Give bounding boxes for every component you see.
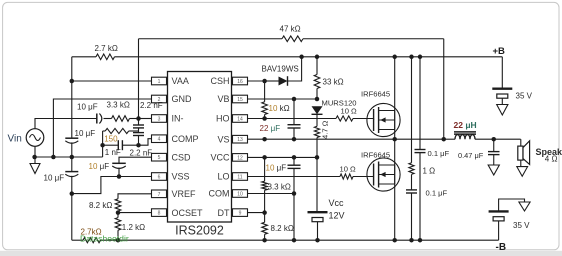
- node 33k +B junction: [315, 55, 320, 60]
- node branch1 +B junction: [409, 55, 414, 60]
- wire IN- node to pin 3: [139, 118, 152, 120]
- svg-text:3.3 kΩ: 3.3 kΩ: [268, 183, 291, 192]
- resistor 8.2 kΩ left: [115, 199, 121, 211]
- node Q1 drain +B junction: [392, 55, 397, 60]
- svg-text:9: 9: [239, 211, 242, 217]
- wire +B rail: [72, 56, 96, 58]
- wire decoupling branch 1: [411, 57, 413, 163]
- node branch1 rail junction: [409, 238, 414, 243]
- wire VAA to pin 1: [72, 80, 152, 82]
- wire feedback vertical right: [443, 39, 445, 139]
- svg-text:IRS2092: IRS2092: [175, 224, 224, 238]
- svg-text:VREF: VREF: [172, 189, 197, 199]
- node Vcc wire end junction: [315, 155, 320, 160]
- svg-text:2.2 nF: 2.2 nF: [140, 101, 163, 110]
- svg-text:DT: DT: [218, 208, 230, 218]
- svg-text:35 V: 35 V: [513, 221, 530, 230]
- node DT junction: [262, 210, 267, 215]
- svg-text:4: 4: [158, 137, 161, 143]
- pin 7 VREF box: [152, 190, 167, 198]
- svg-text:47 kΩ: 47 kΩ: [280, 25, 301, 34]
- svg-text:2.2 nF: 2.2 nF: [130, 148, 153, 157]
- wire HO pin 14: [248, 118, 265, 120]
- diode MURS120: [312, 106, 323, 114]
- resistor 10 kΩ CSH-HO: [264, 81, 266, 102]
- svg-text:8: 8: [158, 211, 161, 217]
- wire bottom rail: [72, 239, 83, 241]
- pin 11 LO box: [233, 173, 248, 181]
- capacitor 2.2 nF upper (IN- to mid node): [138, 119, 140, 126]
- svg-text:10 μF: 10 μF: [77, 103, 98, 112]
- wire 3.3k to IN- node: [130, 118, 139, 120]
- svg-text:VAA: VAA: [172, 76, 189, 86]
- svg-text:0.47 μF: 0.47 μF: [458, 151, 484, 160]
- resistor 47 kΩ: [282, 36, 303, 42]
- capacitor 10 uF CSD: [119, 157, 152, 163]
- wire cap to 3.3k: [104, 118, 112, 120]
- wire Vin to input cap: [35, 119, 97, 129]
- wire VCC pin 12: [248, 156, 318, 158]
- wire VSS pin 6: [72, 177, 152, 194]
- svg-text:LO: LO: [217, 172, 229, 182]
- ground +B battery: [501, 98, 503, 104]
- capacitor 2.2 nF lower (mid node to COMP): [133, 132, 144, 134]
- pin 3 IN- box: [152, 115, 167, 123]
- svg-text:150: 150: [104, 135, 118, 144]
- node CSH junction: [262, 79, 267, 84]
- svg-text:Vcc: Vcc: [329, 198, 345, 208]
- wire CSH pin 16: [248, 80, 265, 82]
- node Vcc battery rail junction: [315, 238, 320, 243]
- wire Q1 drain to +B: [394, 57, 396, 111]
- node diode +B junction: [299, 55, 304, 60]
- wire VAA drop from +B rail: [71, 57, 73, 81]
- node HO junction: [262, 116, 267, 121]
- capacitor 10 uF VCC bypass: [293, 157, 295, 165]
- wire VS pin 13: [248, 138, 395, 140]
- svg-text:GND: GND: [172, 94, 193, 104]
- svg-text:IRF6645: IRF6645: [361, 151, 390, 160]
- node 8.2k rail junction: [262, 238, 267, 243]
- node VSS junction: [70, 191, 75, 196]
- svg-text:OCSET: OCSET: [172, 208, 204, 218]
- svg-text:22 μF: 22 μF: [260, 124, 281, 133]
- svg-text:COM: COM: [209, 189, 230, 199]
- pin 16 CSH box: [233, 77, 248, 85]
- pin 15 VB box: [233, 95, 248, 103]
- svg-text:+B: +B: [493, 46, 506, 57]
- wire GND pin 2: [53, 99, 151, 157]
- node OCSET junction: [116, 210, 121, 215]
- node VB bootstrap junction: [292, 97, 297, 102]
- node Vin ground: [32, 155, 37, 160]
- diode BAV19WS: [279, 77, 288, 86]
- node branch2 rail junction: [418, 238, 423, 243]
- wire 1 nF to COMP pin 4: [122, 144, 138, 146]
- resistor 1 ohm: [409, 163, 414, 175]
- ground speaker: [517, 167, 528, 177]
- wire VAA vertical to bottom rail: [71, 194, 73, 241]
- svg-text:12: 12: [237, 155, 243, 161]
- svg-text:0.1 μF: 0.1 μF: [428, 149, 450, 158]
- node mid compensation: [138, 131, 140, 133]
- svg-text:22 μH: 22 μH: [454, 120, 477, 130]
- svg-text:13: 13: [237, 137, 243, 143]
- svg-text:10 μF: 10 μF: [89, 162, 110, 171]
- wire Vcc vertical to battery: [316, 157, 318, 211]
- pin 8 OCSET box: [152, 209, 167, 217]
- pin 6 VSS box: [152, 173, 167, 181]
- svg-text:15: 15: [237, 97, 243, 103]
- op-amp U1 IRS2092 body: [168, 72, 232, 223]
- source Vin: [26, 129, 44, 147]
- wire Vin bottom: [34, 146, 36, 157]
- svg-text:Vin: Vin: [8, 134, 22, 145]
- wire +B rail drop to battery: [501, 57, 503, 88]
- svg-text:35 V: 35 V: [516, 92, 533, 101]
- svg-text:10 μF: 10 μF: [266, 164, 287, 173]
- node VCC 10uF junction: [292, 155, 297, 160]
- resistor 10 ohm high side: [336, 116, 353, 121]
- ground Vin: [34, 157, 36, 164]
- node output cap junction: [492, 137, 497, 142]
- svg-text:HO: HO: [216, 114, 230, 124]
- node VS stray dot: [262, 137, 267, 142]
- node 1 nF / ground junction: [100, 143, 105, 148]
- wire speaker to ground: [520, 160, 522, 167]
- resistor 3.3 kΩ deadtime upper: [264, 157, 266, 181]
- svg-text:6: 6: [158, 175, 161, 181]
- wire Q1 gate: [373, 119, 375, 121]
- resistor 33 kΩ: [316, 57, 318, 75]
- capacitor 10 uF VSS decoupling: [71, 157, 73, 172]
- capacitor 22 uF bootstrap: [293, 99, 295, 125]
- svg-text:4 Ω: 4 Ω: [545, 155, 558, 164]
- node GND vertical junction: [51, 155, 56, 160]
- svg-text:7: 7: [158, 192, 161, 198]
- svg-text:5: 5: [158, 155, 161, 161]
- pin 9 DT box: [233, 209, 248, 217]
- node VB MURS junction: [315, 97, 320, 102]
- wire decoupling branch 2: [419, 57, 421, 150]
- resistor 3.3 kΩ input: [112, 116, 130, 122]
- svg-text:3: 3: [158, 117, 161, 123]
- node 22uF VS junction: [292, 137, 297, 142]
- ground output cap: [488, 165, 499, 175]
- node VS half-bridge junction: [392, 137, 397, 142]
- node VS feedback junction: [442, 137, 447, 142]
- svg-text:1 Ω: 1 Ω: [423, 167, 436, 176]
- node VAA cap junction: [70, 155, 75, 160]
- svg-text:10 μF: 10 μF: [44, 174, 65, 183]
- wire -B battery to rail: [498, 221, 500, 240]
- svg-text:10 μF: 10 μF: [75, 129, 96, 138]
- capacitor 10 uF input: [96, 114, 98, 124]
- svg-text:IN-: IN-: [172, 114, 184, 124]
- resistor 1.2 kΩ: [117, 213, 119, 218]
- wire ground drop from 1nF node: [102, 145, 104, 157]
- svg-text:-B: -B: [496, 242, 507, 253]
- inductor 22 uH: [444, 138, 455, 140]
- speaker: [520, 139, 522, 146]
- resistor 8.2 kΩ deadtime lower: [264, 213, 266, 223]
- wire LO pin 11: [248, 176, 341, 178]
- ground -B dogleg: [519, 202, 530, 211]
- svg-text:VB: VB: [217, 94, 229, 104]
- node VCC 3.3k junction: [262, 155, 267, 160]
- svg-text:4.7 Ω: 4.7 Ω: [321, 120, 330, 139]
- capacitor 0.1 uF upper: [415, 149, 426, 151]
- svg-text:2.7 kΩ: 2.7 kΩ: [95, 44, 118, 53]
- wire VREF pin 7 to 8.2k: [118, 194, 152, 199]
- svg-text:CSD: CSD: [172, 152, 192, 162]
- resistor 10 ohm low side: [340, 174, 353, 179]
- wire OCSET pin 8: [118, 212, 152, 214]
- node VAA junction: [70, 79, 75, 84]
- capacitor 0.1 uF lower: [411, 174, 413, 190]
- svg-text:0.1 μF: 0.1 μF: [426, 189, 448, 198]
- svg-text:16: 16: [237, 79, 243, 85]
- wire COM vertical to rail: [293, 194, 295, 241]
- pin 12 VCC box: [233, 154, 248, 162]
- node IN- summing junction: [136, 116, 141, 121]
- svg-text:CSH: CSH: [210, 76, 229, 86]
- wire Q1 source to VS: [394, 130, 396, 140]
- wire DT pin 9: [248, 212, 265, 214]
- svg-text:10: 10: [237, 192, 243, 198]
- svg-text:10 Ω: 10 Ω: [341, 107, 358, 116]
- svg-text:3.3 kΩ: 3.3 kΩ: [107, 101, 130, 110]
- node COM junction: [292, 191, 297, 196]
- wire VB pin 15: [248, 98, 295, 100]
- resistor 2.7k bottom: [83, 238, 101, 243]
- capacitor 0.47 uF: [493, 139, 495, 151]
- node Q2 source rail junction: [392, 238, 397, 243]
- pin 1 VAA box: [152, 77, 167, 85]
- svg-text:BAV19WS: BAV19WS: [262, 65, 299, 74]
- transistor Q1 high-side IRF6645: [367, 103, 400, 136]
- pin 5 CSD box: [152, 153, 167, 161]
- battery +B 35V: [492, 87, 512, 89]
- svg-text:VSS: VSS: [172, 172, 190, 182]
- svg-text:10 Ω: 10 Ω: [340, 165, 357, 174]
- pin 13 VS box: [233, 135, 248, 143]
- wire Q2 source to bottom rail: [394, 184, 396, 240]
- wire 150 ohm left drop: [102, 131, 104, 145]
- pin 10 COM box: [233, 190, 248, 198]
- transistor Q2 low-side IRF6645: [367, 158, 400, 191]
- wire COM pin 10: [248, 193, 295, 195]
- svg-text:14: 14: [237, 117, 243, 123]
- svg-text:Datasheetdir: Datasheetdir: [80, 234, 129, 244]
- node branch2 +B junction: [418, 55, 423, 60]
- capacitor 1 nF: [103, 144, 119, 146]
- svg-text:VCC: VCC: [210, 153, 230, 163]
- svg-text:33 kΩ: 33 kΩ: [323, 78, 344, 87]
- svg-text:8.2 kΩ: 8.2 kΩ: [271, 224, 294, 233]
- wire inductor to speaker node: [475, 138, 521, 140]
- svg-text:VS: VS: [217, 134, 229, 144]
- svg-text:12V: 12V: [329, 211, 345, 221]
- wire Q2 drain to VS: [394, 139, 396, 165]
- resistor 4.7 ohm: [316, 114, 318, 126]
- wire analog ground bus: [35, 156, 103, 158]
- node 1.2k bottom rail junction: [116, 238, 121, 243]
- battery Vcc 12V: [308, 211, 328, 213]
- svg-text:1 nF: 1 nF: [105, 148, 121, 157]
- battery -B 35V: [489, 210, 509, 212]
- svg-text:COMP: COMP: [172, 134, 199, 144]
- svg-text:IRF6645: IRF6645: [361, 90, 390, 99]
- capacitor 10 uF VAA decoupling: [71, 81, 73, 138]
- wire diode cathode to +B rail: [288, 57, 302, 81]
- svg-text:1.2 kΩ: 1.2 kΩ: [122, 223, 145, 232]
- svg-text:11: 11: [237, 175, 242, 181]
- svg-text:1: 1: [158, 79, 161, 85]
- pin 14 HO box: [233, 115, 248, 123]
- wire feedback vertical left: [138, 39, 140, 119]
- wire -B battery top dogleg: [499, 199, 525, 211]
- pin 4 COMP box: [152, 135, 167, 143]
- resistor 2.7 kΩ: [96, 54, 115, 60]
- wire top feedback rail: [139, 38, 283, 40]
- svg-text:10 kΩ: 10 kΩ: [269, 104, 290, 113]
- resistor 150 ohm: [129, 130, 139, 132]
- pin 2 GND box: [152, 95, 167, 103]
- svg-text:8.2 kΩ: 8.2 kΩ: [89, 201, 112, 210]
